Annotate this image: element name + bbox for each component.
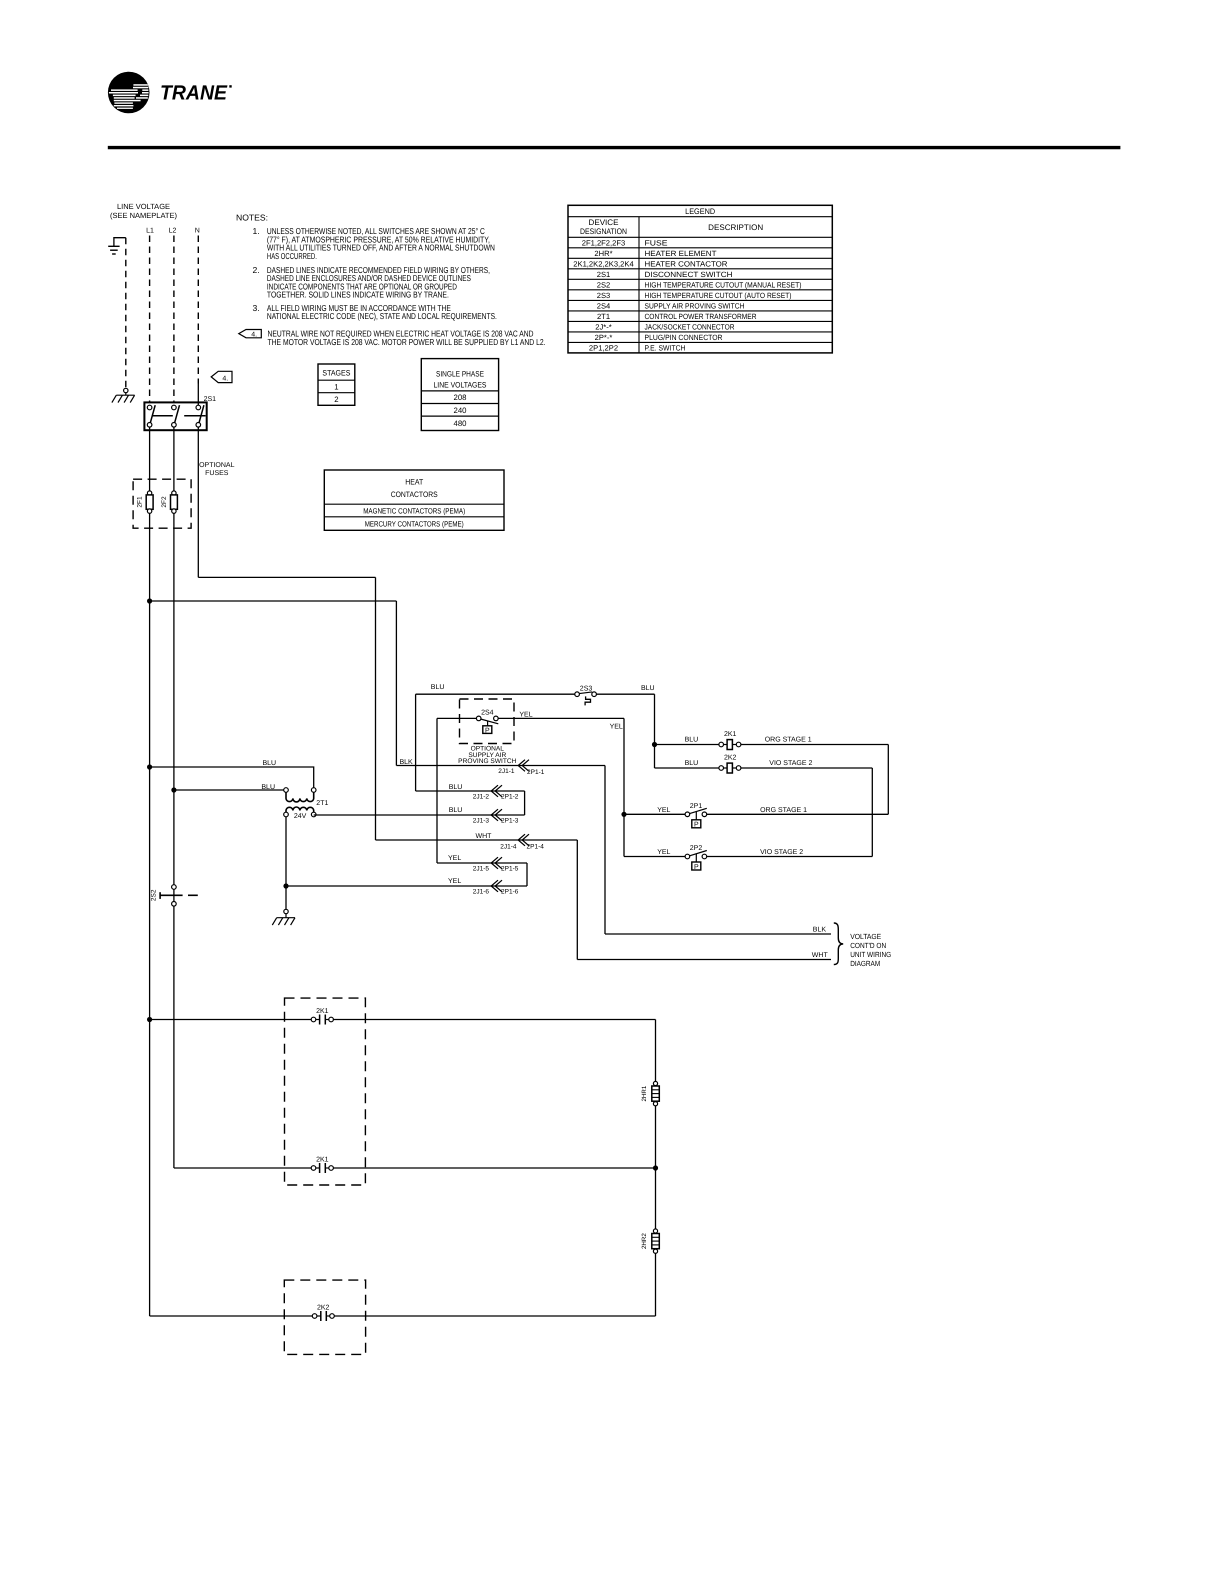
wire 2K2 contact row left [150,1315,313,1317]
contactor contact 2K2 [312,1311,334,1321]
svg-text:PLUG/PIN CONNECTOR: PLUG/PIN CONNECTOR [645,333,723,342]
svg-text:BLU: BLU [263,760,277,767]
heater element 2HR1 [652,1081,660,1105]
svg-text:480: 480 [453,419,467,428]
svg-text:HEAT: HEAT [405,477,423,486]
wire N below 2S1 [197,427,199,577]
svg-text:HIGH TEMPERATURE CUTOUT (MANUA: HIGH TEMPERATURE CUTOUT (MANUAL RESET) [645,280,802,289]
heater contactor 2K2 enclosure [284,1280,365,1354]
svg-text:(SEE NAMEPLATE): (SEE NAMEPLATE) [110,211,177,220]
svg-text:BLU: BLU [431,684,445,691]
wire dashed L1 feeder [149,236,151,402]
wire WHT down to cont'd [576,840,578,960]
wire heater right rail lower [655,1253,657,1316]
note 1 [253,226,495,261]
node L1-2T1 junction [147,764,152,769]
jack/socket 2J1-6 2P1-6 [473,880,519,895]
single phase line voltages table [421,359,498,431]
wire ORG STAGE 1 2P1 row [707,813,889,815]
wire 2K1 contact row 1 right [333,1019,655,1021]
node L1-BLK junction [147,598,152,603]
P.E. switch 2P1 [685,808,707,828]
wire BLU coil feed vertical [654,694,656,768]
wire L2 rail lower [173,906,175,1168]
wire 2K2 contact row right [333,1315,655,1317]
wire YEL up to 2S4 [436,718,438,863]
wire 2S4 left lead [437,717,477,719]
svg-text:BLK: BLK [813,926,827,933]
svg-text:DESIGNATION: DESIGNATION [580,227,627,236]
P.E. switch 2P2 [685,851,707,871]
svg-text:2S3: 2S3 [597,291,611,300]
svg-text:2.: 2. [253,265,260,275]
wire 2K1 contact row 2 right [333,1167,655,1169]
svg-text:2P1-3: 2P1-3 [501,817,519,824]
wire dashed L2 feeder [173,236,175,402]
wire L2 2S1 to fuse [173,427,175,491]
svg-text:2S2: 2S2 [151,889,158,901]
svg-text:2K2: 2K2 [317,1305,330,1312]
svg-text:CONTACTORS: CONTACTORS [391,490,438,499]
svg-text:P: P [694,822,699,829]
svg-text:BLU: BLU [449,807,463,814]
svg-text:PROVING SWITCH: PROVING SWITCH [458,758,516,765]
svg-text:2S2: 2S2 [597,280,611,289]
svg-text:LEGEND: LEGEND [685,207,715,216]
svg-text:FUSE: FUSE [645,238,668,247]
wire heater right rail upper [655,1020,657,1082]
voltage cont'd caption [850,932,891,968]
svg-text:BLU: BLU [449,784,463,791]
node 2T1-ground junction [283,883,288,888]
svg-text:2P1-2: 2P1-2 [501,793,519,800]
svg-text:2P1-4: 2P1-4 [527,844,545,851]
svg-text:L2: L2 [169,227,177,234]
node coil feed junction [652,742,657,747]
svg-text:STAGES: STAGES [322,369,350,378]
svg-text:2S4: 2S4 [481,710,494,717]
wire BLK down to cont'd [604,766,606,935]
wire WHT row [376,839,578,841]
svg-text:2K1,2K2,2K3,2K4: 2K1,2K2,2K3,2K4 [573,259,633,268]
note 4 flag [239,330,261,339]
wire BLU 2J1-2 row [416,790,525,792]
note 2 [253,265,490,300]
jack/socket 2J1-2 2P1-2 [473,785,519,800]
wire BLU to 2T1 primary left [174,789,284,791]
svg-text:HEATER CONTACTOR: HEATER CONTACTOR [645,259,729,268]
wire BLU to 2T1 primary right [150,767,314,788]
svg-text:2F1,2F2,2F3: 2F1,2F2,2F3 [582,238,625,247]
wire 2K2 coil row left [655,767,719,769]
svg-text:THE MOTOR VOLTAGE IS 208 VAC.: THE MOTOR VOLTAGE IS 208 VAC. MOTOR POWE… [268,337,546,347]
wire VIO STAGE 2 from 2K2 [741,767,872,769]
heater element 2HR2 [652,1229,660,1253]
contactor contact 2K1 top [311,1015,333,1025]
svg-text:2HR*: 2HR* [594,249,612,258]
svg-text:BLU: BLU [685,736,699,743]
note 3 [253,303,497,321]
svg-text:24V: 24V [294,813,307,820]
earth ground symbol [108,238,126,254]
supply air proving switch 2S4 [476,716,498,734]
svg-text:240: 240 [453,406,467,415]
svg-text:2S3: 2S3 [580,686,593,693]
wire WHT vertical [375,577,377,840]
wire BLK row [396,765,605,767]
wire WHT bottom row [577,959,831,961]
wire dashed N feeder [197,236,199,384]
fuse 2F2 [171,491,178,513]
svg-text:2S1: 2S1 [597,270,611,279]
svg-text:2HR1: 2HR1 [641,1085,648,1101]
dashed enclosure optional fuses [133,479,191,528]
svg-text:2J1-5: 2J1-5 [473,865,490,872]
wire L2 rail upper [173,513,175,885]
svg-text:UNIT WIRING: UNIT WIRING [850,950,891,959]
svg-text:NOTES:: NOTES: [236,213,268,223]
wire L1 rail [149,513,151,1316]
wire 2K1 coil row left [655,744,719,746]
chassis ground symbol [112,388,135,402]
svg-text:1.: 1. [253,226,260,236]
svg-text:NATIONAL ELECTRIC CODE (NEC),: NATIONAL ELECTRIC CODE (NEC), STATE AND … [267,311,497,321]
svg-text:SUPPLY AIR PROVING SWITCH: SUPPLY AIR PROVING SWITCH [645,302,745,311]
jack/socket 2J1-5 2P1-5 [473,857,519,872]
wire 2K2 to 2P2 vertical [871,768,873,857]
svg-text:2F1: 2F1 [137,496,144,508]
wire VIO STAGE 2 2P2 row [707,856,873,858]
high temp cutout 2S3 [575,692,597,706]
svg-text:3.: 3. [253,303,260,313]
wire YEL from 2S4 right [498,717,624,719]
svg-text:2K1: 2K1 [316,1157,329,1164]
wire BLU up to 2S3 feed [415,694,417,791]
wire dashed ground feeder [125,238,127,389]
svg-text:CONT'D ON: CONT'D ON [850,941,886,950]
svg-text:2P*-*: 2P*-* [595,333,613,342]
wire BLK bottom row [605,933,831,935]
brace voltage cont'd [834,923,843,965]
svg-text:208: 208 [453,393,466,402]
svg-text:LINE VOLTAGES: LINE VOLTAGES [434,380,487,389]
svg-text:P: P [485,727,490,734]
svg-text:4.: 4. [251,332,257,339]
OPTIONAL FUSES caption [199,462,235,477]
svg-text:P: P [694,864,699,871]
wire YEL vertical to P.E. rows [623,718,625,856]
contactor contact 2K1 bottom [311,1163,333,1173]
svg-text:YEL: YEL [657,807,670,814]
svg-text:TOGETHER. SOLID LINES INDICAT: TOGETHER. SOLID LINES INDICATE WIRING BY… [267,290,449,300]
LINE VOLTAGE caption [110,202,177,220]
supply air proving switch 2S4 enclosure [460,699,515,744]
wire YEL 2P1 row [624,813,685,815]
svg-text:4.: 4. [222,375,228,382]
svg-text:MERCURY CONTACTORS (PEME): MERCURY CONTACTORS (PEME) [365,519,464,528]
svg-text:BLU: BLU [261,784,275,791]
node L1 heater junction [147,1017,152,1022]
svg-text:MAGNETIC CONTACTORS (PEMA): MAGNETIC CONTACTORS (PEMA) [363,507,465,516]
svg-text:WHT: WHT [476,833,493,840]
svg-text:WHT: WHT [812,952,829,959]
stages table [318,364,355,405]
svg-text:2P2: 2P2 [690,845,703,852]
svg-text:YEL: YEL [448,878,461,885]
wire YEL 2J1-5 row [437,862,527,864]
wire plug jumper 2P1-5 2P1-6 [526,863,528,886]
svg-text:2J1-4: 2J1-4 [500,844,517,851]
wire BLU from 2S3 [596,693,654,695]
wire 2K1 contact row 2 left [174,1167,311,1169]
wire 2K1 contact row 1 left [150,1019,312,1021]
svg-text:2P1,2P2: 2P1,2P2 [589,344,618,353]
transformer 2T1 [284,788,316,817]
relay coil 2K2 [719,763,741,773]
svg-text:2P1-5: 2P1-5 [501,865,519,872]
svg-text:ORG STAGE 1: ORG STAGE 1 [765,736,812,743]
svg-text:2J*-*: 2J*-* [595,323,612,332]
svg-text:2K2: 2K2 [724,755,737,762]
svg-text:DESCRIPTION: DESCRIPTION [708,223,763,232]
heat contactors table [324,470,504,530]
svg-text:VIO STAGE 2: VIO STAGE 2 [760,849,803,856]
node YEL junction [621,812,626,817]
svg-text:ORG STAGE 1: ORG STAGE 1 [760,807,807,814]
note flag 4 at N feeder [211,371,232,382]
wire BLU top row to 2S3 [416,693,575,695]
wire L1 2S1 to fuse [149,427,151,491]
svg-text:2J1-3: 2J1-3 [473,817,490,824]
svg-text:YEL: YEL [519,712,532,719]
Trane logo disc [108,72,150,114]
svg-text:BLU: BLU [685,760,699,767]
2S4 caption [458,746,516,765]
svg-text:2P1-6: 2P1-6 [501,888,519,895]
svg-text:2J1-1: 2J1-1 [498,768,515,775]
wire 2T1 secondary left down [285,817,287,910]
svg-text:TRANE: TRANE [160,82,228,105]
svg-text:2K1: 2K1 [724,731,737,738]
wire heater right rail mid [655,1106,657,1230]
svg-text:2P1: 2P1 [690,803,703,810]
wire N tap horizontal [198,576,375,578]
svg-text:2J1-2: 2J1-2 [473,793,490,800]
svg-text:DEVICE: DEVICE [589,218,619,227]
disconnect switch 2S1 [144,402,206,430]
jack/socket 2J1-1 2P1-1 [498,760,544,776]
wire BLU 2J1-3 row [314,814,525,816]
svg-text:YEL: YEL [657,849,670,856]
svg-text:2S1: 2S1 [204,396,217,403]
svg-text:1: 1 [334,383,338,392]
wire BLK tap horizontal [150,600,397,602]
heater contactor 2K1 enclosure [285,998,366,1185]
svg-text:JACK/SOCKET CONNECTOR: JACK/SOCKET CONNECTOR [645,323,735,332]
svg-text:VOLTAGE: VOLTAGE [850,932,881,941]
svg-text:SINGLE PHASE: SINGLE PHASE [436,369,484,378]
svg-text:2K1: 2K1 [316,1008,329,1015]
svg-text:HIGH TEMPERATURE CUTOUT (AUTO: HIGH TEMPERATURE CUTOUT (AUTO RESET) [645,291,792,300]
svg-text:2J1-6: 2J1-6 [473,888,490,895]
svg-text:2F2: 2F2 [161,496,168,508]
wire YEL 2J1-6 row [286,885,527,887]
svg-text:2: 2 [334,395,338,404]
wire ORG STAGE 1 from 2K1 [741,744,888,746]
jack/socket 2J1-3 2P1-3 [473,809,519,824]
header rule [108,146,1121,149]
svg-text:2HR2: 2HR2 [641,1233,648,1249]
wire N into 2S1 [197,384,199,406]
svg-text:2P1-1: 2P1-1 [527,769,545,776]
jack/socket 2J1-4 2P1-4 [500,834,544,850]
svg-text:HEATER ELEMENT: HEATER ELEMENT [645,249,717,258]
svg-text:FUSES: FUSES [205,470,229,477]
high temp cutout 2S2 [160,885,198,906]
svg-text:2S4: 2S4 [597,302,611,311]
svg-text:YEL: YEL [448,855,461,862]
svg-text:BLU: BLU [641,685,655,692]
svg-text:YEL: YEL [610,724,623,731]
svg-text:OPTIONAL: OPTIONAL [199,462,235,469]
relay coil 2K1 [719,740,741,750]
legend table [568,205,832,353]
svg-text:N: N [195,227,200,234]
wire plug jumper 2P1-2 2P1-3 [524,791,526,815]
fuse 2F1 [146,491,153,513]
svg-text:VIO STAGE 2: VIO STAGE 2 [769,760,812,767]
svg-text:P.E. SWITCH: P.E. SWITCH [645,344,686,353]
svg-text:2T1: 2T1 [316,800,328,807]
svg-text:L1: L1 [146,227,154,234]
node L2-2T1 junction [171,787,176,792]
note 4 [268,329,546,347]
wire 2K1 to 2P1 vertical [887,745,889,815]
svg-text:2T1: 2T1 [597,312,610,321]
svg-text:DIAGRAM: DIAGRAM [850,959,880,968]
wire BLK vertical [395,601,397,766]
svg-text:HAS OCCURRED.: HAS OCCURRED. [267,251,317,261]
svg-text:LINE VOLTAGE: LINE VOLTAGE [117,202,170,211]
wire YEL 2P2 row [624,856,685,858]
chassis ground 2T1 [272,909,295,925]
node heater mid junction [653,1165,658,1170]
svg-text:CONTROL POWER TRANSFORMER: CONTROL POWER TRANSFORMER [645,312,757,321]
svg-text:DISCONNECT SWITCH: DISCONNECT SWITCH [645,270,733,279]
